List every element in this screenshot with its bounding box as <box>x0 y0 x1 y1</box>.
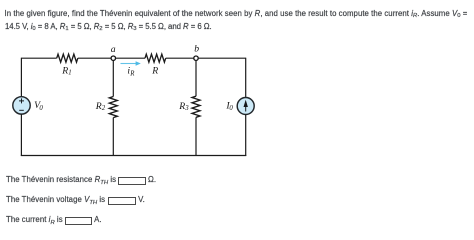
svg-text:0: 0 <box>229 105 233 112</box>
svg-text:a: a <box>111 44 116 55</box>
wire right vertical lower <box>245 115 247 157</box>
wire top-left segment <box>21 57 56 59</box>
svg-text:R: R <box>61 65 68 76</box>
svg-text:0: 0 <box>39 105 43 112</box>
problem statement paragraph <box>5 8 468 34</box>
wire bottom <box>21 155 246 157</box>
voltage source V0 <box>13 97 44 114</box>
wire left vertical upper <box>20 58 22 97</box>
svg-text:3: 3 <box>184 105 189 112</box>
answer line 1: Thevenin resistance <box>6 175 156 185</box>
current arrow iR <box>121 61 141 77</box>
wire node a down to R2 <box>112 60 114 96</box>
resistor R1 <box>57 54 78 76</box>
wire R1 to node a <box>78 57 111 59</box>
wire node b down to R3 <box>195 60 197 96</box>
node a <box>111 44 116 61</box>
answer line 3: current iR <box>6 215 102 225</box>
svg-text:1: 1 <box>68 70 71 77</box>
svg-text:R: R <box>95 101 102 112</box>
resistor R2 <box>95 97 118 118</box>
svg-text:R: R <box>151 65 158 76</box>
wire node b to top-right corner <box>198 57 246 59</box>
wire R2 down to bottom <box>112 118 114 156</box>
wire node a to R <box>115 57 145 59</box>
wire R3 down to bottom <box>195 117 197 156</box>
svg-text:b: b <box>194 44 199 55</box>
svg-text:R: R <box>129 71 135 78</box>
resistor R <box>145 54 166 76</box>
wire R to node b <box>166 57 194 59</box>
svg-text:2: 2 <box>102 105 106 112</box>
resistor R3 <box>178 96 200 117</box>
wire left vertical lower <box>20 114 22 156</box>
wire right vertical upper <box>245 58 247 98</box>
svg-text:R: R <box>178 101 185 112</box>
answer line 2: Thevenin voltage <box>6 195 145 205</box>
current source I0 <box>225 98 254 115</box>
node b <box>194 44 199 61</box>
